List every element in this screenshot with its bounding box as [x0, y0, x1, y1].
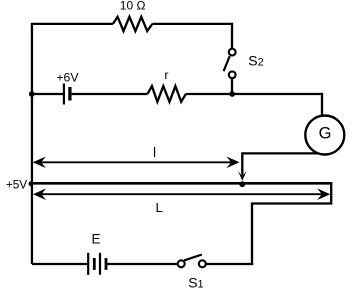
svg-text:L: L: [155, 200, 162, 215]
svg-text:G: G: [319, 125, 332, 143]
wire S2 top lead: [231, 23, 233, 49]
dimension arrow L: [33, 188, 330, 200]
switch S1 right contact: [199, 260, 206, 267]
wire resistor r to junction: [186, 93, 232, 95]
battery E cell1 long plate: [87, 253, 89, 275]
node jockey contact: [239, 181, 245, 187]
wire top branch left of R1: [31, 23, 113, 25]
resistor r zigzag: [148, 86, 186, 102]
galvanometer G: [305, 116, 344, 155]
svg-text:+5V: +5V: [6, 177, 27, 191]
wire galvanometer to jockey horizontal: [242, 152, 326, 154]
node junction left middle: [29, 91, 35, 97]
switch S2 blade: [224, 56, 230, 71]
switch S1 left contact: [178, 260, 185, 267]
battery +6V long plate: [63, 84, 65, 105]
wire battery to resistor r: [72, 93, 148, 95]
battery E cell2 short plate: [105, 258, 108, 270]
switch S1 blade: [184, 255, 202, 261]
wire junction to right corner: [232, 93, 323, 95]
battery E cell2 long plate: [99, 253, 101, 275]
switch S2 bottom contact: [229, 71, 236, 78]
svg-text:l: l: [153, 144, 156, 160]
node +5V junction: [29, 181, 34, 186]
wire middle branch to battery: [32, 93, 64, 95]
svg-text:r: r: [164, 68, 168, 82]
resistor R1 zigzag: [113, 17, 152, 31]
wire bottom branch left: [32, 263, 87, 265]
wire right step down: [252, 182, 331, 264]
wire left vertical: [31, 24, 33, 264]
node junction below S2: [229, 91, 235, 97]
jockey arrow: [241, 152, 243, 176]
battery +6V short plate: [68, 87, 71, 101]
dimension arrow l: [33, 157, 240, 169]
switch S2 top contact: [229, 49, 236, 56]
svg-text:+6V: +6V: [56, 71, 79, 85]
potentiometer wire: [32, 182, 332, 185]
battery E cell1 short plate: [93, 258, 96, 270]
wire down to galvanometer: [321, 93, 323, 117]
svg-text:E: E: [91, 231, 100, 246]
wire battery E to switch S1: [107, 263, 177, 265]
wire S2 bottom lead: [231, 78, 233, 94]
wire switch S1 to right: [206, 263, 253, 265]
svg-text:10 Ω: 10 Ω: [120, 0, 146, 13]
wire top branch right of R1: [152, 23, 233, 25]
